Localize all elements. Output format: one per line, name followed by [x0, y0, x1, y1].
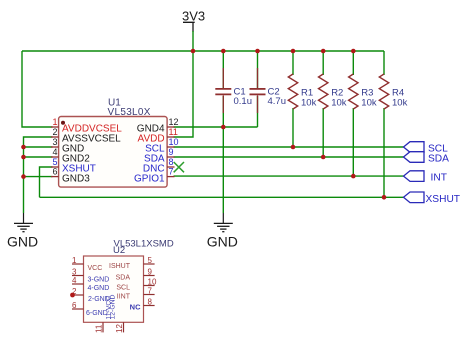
wire rail left drop to pin 1 [22, 51, 53, 127]
junction rail/3V3 [191, 49, 196, 54]
svg-text:7: 7 [148, 287, 153, 296]
U1 pin 5 XSHUT [51, 157, 96, 175]
net flag SCL [404, 142, 449, 155]
power flag 3V3 [182, 8, 205, 32]
svg-text:SDA: SDA [428, 154, 449, 165]
wire R4 branch [383, 51, 385, 197]
U2 pin 4 4-GND [72, 276, 109, 292]
svg-text:12-GND: 12-GND [109, 294, 116, 319]
U2 pin 5 ISHUT [109, 256, 155, 270]
svg-text:9: 9 [148, 268, 153, 277]
svg-text:9: 9 [169, 147, 174, 157]
wire GND bus from pin 2 [24, 137, 53, 213]
junction GND bus pin 4 [21, 155, 26, 160]
U1 pin 2 AVSSVCSEL [51, 127, 121, 145]
svg-text:5: 5 [148, 256, 153, 265]
U2 pin 7 IINT [117, 287, 155, 301]
svg-text:SCL: SCL [116, 285, 130, 292]
wire center GND drop [222, 127, 224, 213]
resistor R4 [379, 74, 407, 109]
svg-text:XSHUT: XSHUT [426, 194, 461, 205]
svg-text:ISHUT: ISHUT [109, 263, 131, 270]
U1 pin 11 AVDD [138, 127, 178, 145]
wire SDA row [174, 156, 404, 158]
wire C1 branch [222, 51, 224, 127]
svg-text:1: 1 [52, 117, 57, 127]
net flag XSHUT [404, 192, 461, 205]
svg-text:GND: GND [207, 233, 238, 249]
svg-text:10k: 10k [301, 98, 317, 109]
wire XSHUT from pin 5 [40, 167, 53, 197]
U1 pin 3 GND [51, 137, 84, 155]
U2 pin 8 NC [130, 298, 155, 312]
junction SDA/R2 [321, 155, 326, 160]
resistor R2 [319, 74, 347, 109]
svg-text:3-GND: 3-GND [88, 277, 110, 284]
U1 pin 7 GPIO1 [134, 167, 174, 185]
resistor R1 [288, 74, 316, 109]
junction XSHUT/R4 [382, 195, 387, 200]
wire GND4 row pin 12 to C2 [174, 126, 258, 128]
svg-text:INT: INT [431, 173, 447, 184]
no-connect X on U1 pin 8 DNC [174, 162, 184, 172]
svg-text:11: 11 [95, 324, 104, 333]
ground symbol center [207, 213, 238, 249]
U2 pin 1 VCC [72, 256, 102, 272]
svg-text:8: 8 [148, 298, 153, 307]
U1 pin 9 SDA [144, 147, 174, 165]
U1 pin 12 GND4 [137, 117, 179, 135]
svg-text:VL53L0X: VL53L0X [108, 107, 151, 118]
resistor R3 [349, 74, 377, 109]
junction GND bus pin 3 [21, 145, 26, 150]
svg-text:0.1u: 0.1u [234, 96, 253, 107]
svg-text:GND: GND [7, 233, 38, 249]
junction rail/R3 [351, 49, 356, 54]
svg-text:IINT: IINT [117, 294, 131, 301]
junction rail/C1 [221, 49, 226, 54]
svg-text:4: 4 [52, 147, 57, 157]
wire XSHUT row [40, 196, 404, 198]
svg-text:3: 3 [52, 137, 57, 147]
wire R3 branch [352, 51, 354, 176]
U1 pin 6 GND3 [51, 167, 90, 185]
wire INT row (GPIO1) [174, 175, 404, 177]
U2 pin 3 3-GND [72, 268, 109, 284]
svg-text:VCC: VCC [88, 265, 103, 272]
U2 pin 6 6-GND [72, 301, 108, 317]
junction rail/R1 [291, 49, 296, 54]
IC U2 VL53L1XSMD body [84, 238, 174, 322]
svg-text:GND3: GND3 [62, 173, 90, 184]
svg-text:5: 5 [52, 157, 57, 167]
svg-text:SDA: SDA [116, 275, 131, 282]
wire SCL row [174, 146, 404, 148]
svg-text:3V3: 3V3 [182, 8, 205, 23]
svg-text:10: 10 [148, 278, 157, 287]
wire 3V3 top rail [22, 50, 384, 52]
wire 3V3 stem [192, 31, 194, 51]
svg-text:GPIO1: GPIO1 [134, 173, 165, 184]
svg-text:8: 8 [169, 157, 174, 167]
wire R2 branch [322, 51, 324, 157]
svg-text:12: 12 [115, 324, 124, 333]
wire C2 branch [257, 51, 259, 127]
svg-text:U2: U2 [113, 245, 125, 256]
wire pin 4 to GND bus [24, 156, 53, 158]
op-amp n/a: IC U1 VL53L0X body [59, 98, 168, 188]
junction GND4 row / C1 / GND drop [221, 125, 226, 130]
net flag INT [404, 171, 447, 184]
svg-text:2: 2 [52, 127, 57, 137]
svg-text:4-GND: 4-GND [88, 285, 110, 292]
svg-text:6: 6 [52, 167, 57, 177]
capacitor C1 [215, 68, 252, 113]
svg-text:6: 6 [72, 301, 77, 310]
U1 pin 8 DNC [143, 157, 175, 175]
net flag SDA [404, 152, 450, 165]
U2 pin 10 SCL [116, 278, 157, 292]
U2 pin 2 2-GND [70, 287, 110, 303]
svg-text:NC: NC [130, 303, 141, 312]
wire R1 branch [292, 51, 294, 147]
junction INT/R3 [351, 174, 356, 179]
junction SCL/R1 [291, 145, 296, 150]
wire pin 6 to GND bus [24, 176, 53, 178]
svg-text:10k: 10k [361, 98, 377, 109]
U1 pin 1 AVDDVCSEL [51, 117, 122, 135]
svg-text:1: 1 [72, 256, 77, 265]
wire AVDD feed rail to pin 11 [174, 51, 194, 137]
capacitor C2 [250, 68, 287, 113]
svg-text:10k: 10k [392, 98, 408, 109]
U2 pin 12 bottom [109, 294, 124, 333]
junction rail/C2 [255, 49, 260, 54]
svg-text:11: 11 [169, 127, 178, 137]
svg-text:12: 12 [169, 117, 179, 127]
svg-text:10k: 10k [331, 98, 347, 109]
U2 pin 11 bottom [95, 296, 113, 333]
wire pin 3 to GND bus [24, 146, 53, 148]
svg-text:4.7u: 4.7u [268, 96, 287, 107]
U2 pin 9 SDA [116, 268, 155, 282]
U1 pin 10 SCL [145, 137, 178, 155]
U1 pin 4 GND2 [51, 147, 90, 165]
junction GND bus pin 6 [21, 174, 26, 179]
svg-text:7: 7 [169, 167, 174, 177]
svg-text:10: 10 [169, 137, 179, 147]
ground symbol left [7, 213, 38, 249]
svg-text:4: 4 [72, 276, 77, 285]
junction rail/R2 [321, 49, 326, 54]
